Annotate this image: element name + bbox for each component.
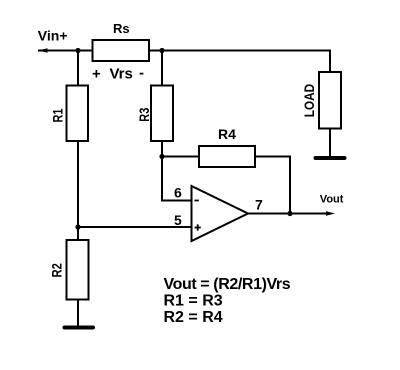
resistor R4 (199, 146, 255, 167)
wire pin 6 input (162, 200, 192, 202)
wire R1 bottom to R2 top (77, 141, 79, 240)
resistor LOAD (319, 72, 341, 129)
svg-text:R1: R1 (49, 108, 65, 122)
svg-text:Vout: Vout (320, 194, 344, 206)
svg-text:Vrs: Vrs (110, 66, 133, 83)
wire feedback down to output node (289, 156, 291, 214)
resistor R2 (67, 240, 89, 300)
wire R4 to output branch (255, 156, 290, 158)
svg-text:-: - (139, 65, 144, 82)
svg-text:LOAD: LOAD (301, 84, 317, 118)
node Vout arrow (326, 211, 335, 216)
op-amp U1 (192, 186, 249, 241)
op-amp plus sign (195, 224, 201, 230)
junction node A (Vin+/R1/Rs) (75, 48, 80, 53)
svg-text:7: 7 (255, 197, 263, 213)
label + Vrs - (92, 65, 144, 83)
svg-text:R3: R3 (136, 108, 152, 122)
junction node B (Rs/R3) (159, 48, 164, 53)
wire top rail from arrow to Rs (38, 50, 93, 52)
svg-text:R1 = R3: R1 = R3 (164, 293, 223, 310)
wire R3 top (161, 51, 163, 86)
junction node E (output) (287, 211, 292, 216)
wire pin 5 input (78, 226, 192, 228)
svg-text:Vout = (R2/R1)Vrs: Vout = (R2/R1)Vrs (164, 276, 291, 293)
svg-text:R2: R2 (48, 263, 64, 277)
svg-text:R2 = R4: R2 = R4 (164, 309, 223, 326)
wire top rail from Rs to LOAD branch (149, 50, 330, 52)
svg-text:Rs: Rs (113, 21, 130, 36)
ground (below LOAD) (314, 156, 347, 160)
wire LOAD top (329, 50, 331, 73)
svg-text:5: 5 (174, 212, 182, 228)
ground (below R2) (63, 326, 96, 330)
resistor R3 (151, 86, 173, 142)
svg-text:R4: R4 (218, 126, 236, 142)
resistor Rs (93, 40, 150, 61)
svg-text:+: + (92, 66, 101, 83)
op-amp minus sign (195, 200, 199, 202)
wire R2 bottom to ground (77, 300, 79, 327)
wire node D to R4 (162, 156, 199, 158)
wire R1 top (77, 51, 79, 86)
wire LOAD bottom to ground (329, 129, 331, 157)
junction node D (R3/R4) (159, 154, 164, 159)
wire op-amp output (248, 213, 327, 215)
wire R3 bottom to pin 6 (161, 141, 163, 202)
resistor R1 (67, 86, 89, 142)
svg-text:6: 6 (174, 185, 182, 201)
junction node C (pin 5 tap) (75, 224, 80, 229)
node Vin+ arrow (38, 48, 48, 53)
svg-text:Vin+: Vin+ (38, 28, 68, 44)
